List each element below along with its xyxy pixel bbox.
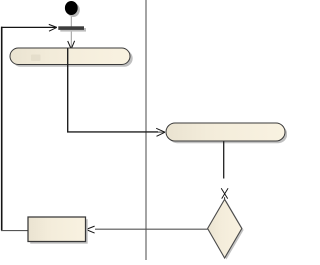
arrowhead into fork bar (49, 24, 57, 31)
watermark smudge inside activity 1 (31, 55, 41, 62)
wire: rectangle to fork bar (left vertical segment) (1, 27, 3, 231)
fork bar shadow (60, 28, 86, 32)
decision diamond (208, 199, 242, 258)
wire: activity 2 to decision (223, 142, 225, 179)
arrowhead into decision (crossed open arrow) (221, 188, 228, 199)
decision diamond shadow (209, 201, 243, 260)
wire: top horizontal into fork bar (1, 26, 57, 28)
swimlane divider (145, 0, 147, 260)
activity 2 shadow (168, 125, 287, 143)
activity 2 (166, 123, 285, 141)
initial node (65, 1, 78, 15)
rectangle node shadow (30, 219, 87, 244)
fork bar (58, 26, 84, 30)
activity 1 shadow (12, 50, 133, 66)
rectangle node (28, 217, 86, 242)
arrowhead into activity 1 (68, 41, 75, 49)
wire: decision to rectangle (95, 228, 208, 230)
activity 1 (10, 48, 130, 65)
arrowhead into rectangle (86, 226, 95, 233)
wire: activity 1 to activity 2 (elbow) (68, 48, 158, 132)
wire: gray line from initial node through bar to activity 1 (70, 14, 72, 48)
initial node shadow (67, 3, 80, 17)
arrowhead into activity 2 (156, 128, 165, 136)
wire: bottom horizontal from left line to rectangle (1, 230, 28, 232)
